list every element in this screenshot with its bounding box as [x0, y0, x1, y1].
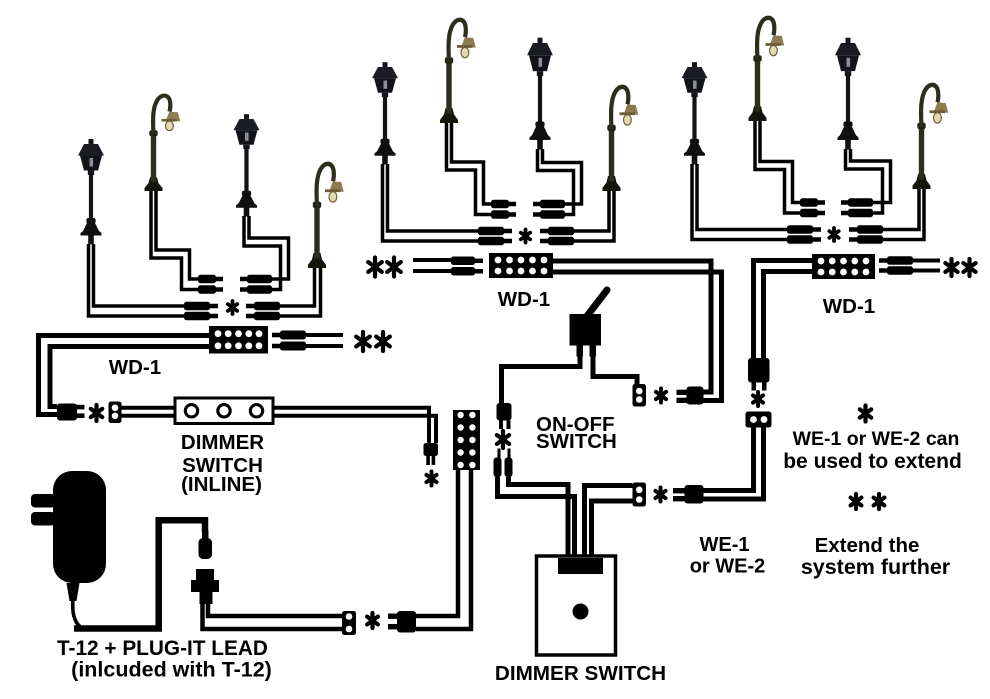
socket connector C5 [746, 412, 772, 428]
wire socket pair to dimmer switch (left) [498, 477, 575, 557]
double asterisk, group 3 extension [945, 259, 957, 276]
lamp post M2 (swan-neck) [440, 20, 476, 123]
extension point asterisk, group 3 [829, 228, 838, 241]
inline dimmer switch body [175, 398, 273, 424]
plug P2 [424, 443, 439, 456]
plug-it lead socket [196, 569, 214, 582]
plug P6 [673, 488, 686, 493]
toggle switch body [570, 314, 602, 346]
wire pair from R3 [851, 149, 891, 203]
lamp post R1 (lantern) [682, 62, 708, 164]
connector plugs from M3 (upper row right) [540, 200, 565, 209]
wire P7 to WD-1 group 3 (lower) [764, 272, 813, 359]
lamp post L2 (swan-neck) [145, 96, 181, 191]
socket pair below P4 [498, 449, 501, 459]
wire pair from R2 [760, 121, 800, 203]
connector plugs from M4 (lower row right) [548, 227, 574, 236]
lamp post R2 (swan-neck) [749, 18, 785, 121]
extension point asterisk between C4 and P6 [655, 488, 665, 502]
svg-text:WD-1: WD-1 [109, 356, 161, 379]
legend double asterisk [851, 494, 862, 509]
wire WD-1 group1 to plug (inner) [50, 347, 209, 407]
extension point asterisk between C3 and P5 [656, 389, 666, 403]
extension point asterisk near plug P4 [497, 431, 509, 448]
svg-text:(inlcuded with T-12): (inlcuded with T-12) [71, 658, 272, 682]
socket connector C1 [109, 402, 122, 424]
plug P4 [497, 403, 512, 421]
T-12 transformer prongs [31, 494, 55, 508]
wire P3 to distribution block (lower) [416, 470, 471, 629]
svg-text:SWITCH: SWITCH [536, 430, 617, 453]
T-12 output cord [73, 600, 80, 627]
wire socket pair to dimmer switch (right) [509, 477, 569, 557]
wire pair from L1 [94, 244, 186, 306]
wire pair from M1 [388, 164, 479, 231]
lamp post L3 (lantern) [234, 114, 260, 216]
plug P5 [677, 390, 688, 395]
wires plug-it lead to connector C2 [208, 602, 342, 616]
double asterisk, group 1 extension [356, 332, 370, 351]
dimmer switch terminal bar [558, 558, 603, 574]
wire P6 to connector C5 (upper) [703, 427, 754, 491]
extension point asterisk between C2 and P3 [367, 613, 378, 628]
legend single asterisk [860, 406, 872, 422]
connector plugs from M1 (lower row left) [478, 227, 504, 236]
connector plugs from L1 (lower row left) [184, 302, 210, 311]
extension point asterisk between C5 and P7 [753, 392, 763, 406]
vertical distribution block [453, 410, 480, 470]
wire pair from R1 [697, 164, 787, 230]
svg-text:DIMMER SWITCH: DIMMER SWITCH [495, 662, 666, 685]
connector plugs from R2 (upper row left) [800, 198, 818, 207]
svg-text:system further: system further [801, 555, 951, 579]
wire P3 to distribution block (upper) [416, 470, 458, 616]
lamp post L1 (lantern) [78, 139, 104, 245]
extension point asterisk, group 2 [521, 230, 530, 243]
wire pair from M3 [543, 149, 582, 204]
connector plugs from R4 (lower row right) [857, 225, 883, 234]
svg-text:Extend the: Extend the [815, 534, 920, 557]
extension plugs on WD-1 group 2 input [451, 257, 475, 266]
wires C1 to inline dimmer [122, 406, 176, 410]
connector plugs from L2 (upper row left) [198, 275, 216, 284]
connector plugs from R3 (upper row right) [848, 198, 873, 207]
svg-text:(INLINE): (INLINE) [181, 473, 262, 496]
extension point asterisk, group 1 [228, 301, 237, 314]
wire C4 to dimmer switch (lower) [592, 501, 633, 557]
connector plugs from L4 (lower row right) [254, 302, 280, 311]
wire toggle left pin to plug P4 [502, 354, 581, 404]
svg-text:WD-1: WD-1 [823, 295, 875, 318]
lamp post M1 (lantern) [372, 62, 398, 164]
socket connector C4 [633, 483, 647, 507]
extension plugs on WD-1 group 3 output [887, 256, 913, 265]
connector plugs from M2 (upper row left) [491, 200, 509, 209]
T-12 strain relief [67, 583, 80, 601]
T-12 transformer body [53, 471, 106, 583]
dimmer switch box [537, 556, 616, 655]
wires inline dimmer to plug P2 [273, 408, 429, 443]
socket connector C2 [342, 611, 356, 635]
wire toggle right pin to connector C3 [593, 354, 637, 386]
svg-text:DIMMER: DIMMER [181, 431, 264, 454]
connector plugs from L3 (upper row right) [247, 275, 272, 284]
svg-text:WD-1: WD-1 [498, 288, 550, 311]
lamp post L4 (swan-neck) [308, 164, 344, 268]
wire P7 to WD-1 group 3 (upper) [754, 261, 813, 359]
wire pair from L2 [156, 191, 198, 279]
dimmer switch knob [573, 604, 589, 620]
plug P1 [57, 404, 77, 421]
extension point asterisk near plug P2 [426, 472, 436, 486]
lamp post M4 (swan-neck) [603, 87, 639, 191]
wire C4 to dimmer switch (upper) [585, 486, 633, 558]
svg-text:WE-1 or WE-2 can: WE-1 or WE-2 can [793, 428, 960, 450]
svg-text:or WE-2: or WE-2 [690, 556, 766, 578]
wire WD-1 group1 to plug (outer) [39, 336, 210, 415]
toggle switch pins [577, 346, 584, 357]
wire P6 to connector C5 (lower) [703, 427, 764, 499]
wire pair from R4 [883, 189, 919, 230]
svg-text:WE-1: WE-1 [700, 534, 750, 556]
wire P5 to WD-1 group 2 (lower) [553, 272, 722, 401]
wire P5 to WD-1 group 2 (upper) [553, 261, 711, 392]
wire pair from L4 [280, 268, 315, 306]
extension point asterisk near plug P1 [91, 405, 103, 421]
plug-it lead bullet plug [202, 531, 209, 539]
toggle switch lever [586, 290, 608, 318]
plug P7 [748, 358, 770, 383]
connector plugs from R1 (lower row left) [787, 225, 813, 234]
WD-1 hub, group 1 [209, 326, 268, 354]
socket connector C3 [633, 384, 647, 407]
lamp post M3 (lantern) [527, 38, 553, 150]
wire pair from M2 [452, 123, 492, 204]
double asterisk, group 2 extension [368, 258, 382, 277]
svg-text:be used to extend: be used to extend [783, 450, 962, 473]
T-12 cord run to plug-it lead [74, 520, 205, 628]
plug P3 [388, 614, 398, 619]
extension plugs on WD-1 group 1 output [280, 331, 306, 340]
wire pair from M4 [574, 191, 609, 231]
lamp post R4 (swan-neck) [913, 85, 949, 189]
wire pair from L3 [249, 216, 289, 279]
lamp post R3 (lantern) [835, 38, 861, 150]
WD-1 hub, group 2 [489, 253, 553, 278]
WD-1 hub, group 3 [812, 254, 875, 279]
